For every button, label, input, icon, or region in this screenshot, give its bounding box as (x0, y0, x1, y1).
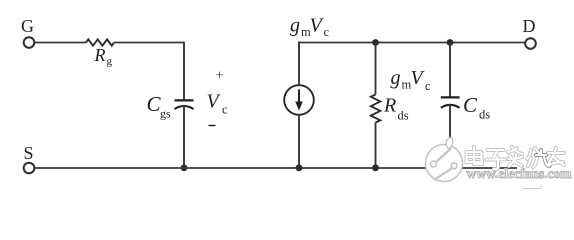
wire corner down to Cgs (183, 42, 185, 100)
svg-text:gs: gs (160, 107, 171, 121)
wire Cds bottom stub (449, 105, 451, 168)
wire top-right rail to D (298, 42, 525, 44)
wire current source top stub (298, 42, 300, 86)
wire bottom rail (35, 167, 518, 169)
label Rg (94, 45, 113, 68)
svg-text:ds: ds (479, 108, 490, 122)
svg-text:www.elecfans.com: www.elecfans.com (467, 166, 573, 181)
junction Rds-bottom (372, 164, 379, 171)
current source I1 (gmVc) (284, 85, 314, 115)
capacitor C1 (Cgs) (175, 100, 194, 109)
svg-text:V: V (411, 67, 426, 89)
terminal S (24, 163, 35, 174)
svg-text:+: + (216, 69, 224, 84)
resistor R2 (Rds) (371, 95, 381, 123)
label Vc (207, 91, 229, 117)
resistor R1 (Rg) (86, 39, 114, 45)
svg-text:G: G (21, 16, 34, 36)
svg-text:g: g (290, 15, 300, 37)
watermark corner box (522, 185, 541, 189)
wire Rds bottom stub (375, 123, 377, 169)
svg-text:V: V (310, 15, 325, 37)
svg-text:c: c (425, 79, 431, 93)
wire current source bottom stub (298, 115, 300, 168)
junction current source-bottom (296, 164, 303, 171)
svg-text:R: R (94, 45, 106, 65)
label Cgs (147, 92, 172, 121)
wire Rds top stub (375, 43, 377, 95)
svg-text:c: c (324, 25, 330, 39)
watermark logo (elecfans) (426, 137, 463, 181)
terminal D (525, 38, 536, 49)
wire Cgs down to bottom rail (183, 106, 185, 168)
label Rds (383, 95, 409, 123)
label minus (Vc polarity) (209, 125, 216, 127)
svg-text:C: C (463, 93, 478, 117)
label gmVc (right, beside Rds) (391, 67, 432, 93)
watermark text dianzi fashaoyou (467, 147, 565, 169)
svg-text:V: V (207, 91, 222, 113)
junction Rds-top (372, 39, 379, 46)
svg-text:S: S (24, 143, 34, 163)
junction Cds-top (447, 39, 454, 46)
capacitor C2 (Cds) (441, 97, 460, 107)
svg-text:ds: ds (398, 109, 409, 123)
label gmVc (top, current source) (290, 15, 330, 40)
svg-text:g: g (107, 56, 113, 68)
label Cds (463, 93, 490, 122)
svg-text:g: g (391, 67, 401, 89)
wire Cds top stub (449, 43, 451, 97)
terminal G (24, 37, 35, 48)
svg-text:R: R (383, 95, 396, 117)
junction Cgs-bottom (181, 164, 188, 171)
wire resistor to corner (114, 42, 185, 44)
svg-text:D: D (523, 16, 536, 36)
wire top-left G to resistor (35, 42, 87, 44)
svg-text:c: c (222, 103, 228, 117)
